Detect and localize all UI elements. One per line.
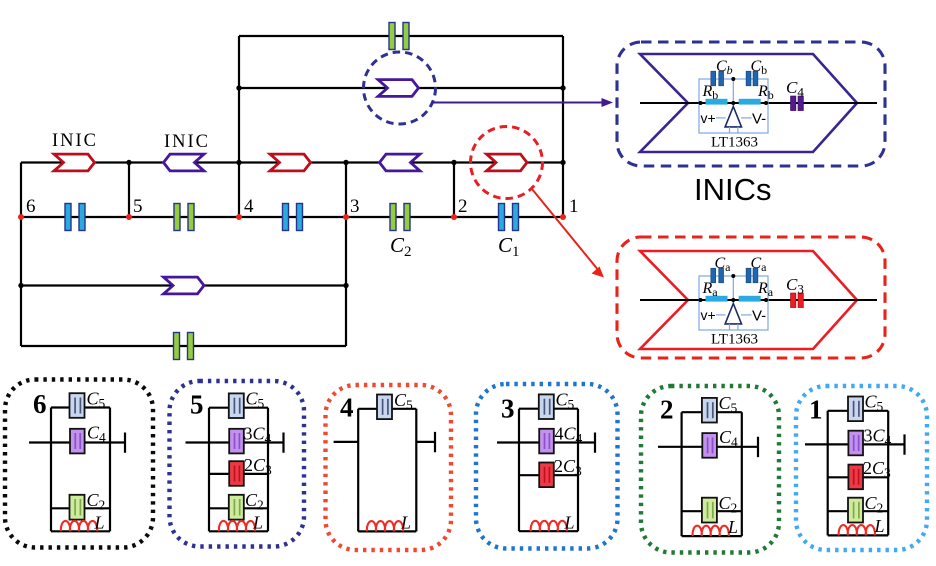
INIC detail box navy dashed border — [617, 42, 885, 166]
junction dot line mid U2 — [731, 298, 735, 302]
wire box1 bottom rung — [828, 534, 889, 536]
svg-text:C5: C5 — [87, 389, 106, 412]
wire box4 output line with T terminal — [416, 432, 435, 452]
junction dot (129,162.5) — [126, 160, 131, 165]
capacitor C2 box2 — [702, 498, 717, 523]
resistor Rb left — [706, 99, 728, 105]
wire lower INIC branch — [21, 284, 346, 286]
svg-text:C2: C2 — [390, 233, 412, 260]
junction dot op-amp top U2 — [731, 274, 735, 278]
junction dot line right — [764, 101, 768, 105]
svg-text:LT1363: LT1363 — [711, 332, 758, 348]
wire box5 C2 rung — [209, 507, 268, 509]
resonator box 5 dotted border — [170, 381, 305, 547]
svg-text:C2: C2 — [87, 490, 106, 513]
svg-text:LT1363: LT1363 — [711, 135, 758, 151]
wire box4 right vertical — [415, 409, 417, 532]
capacitor C2 box5 — [229, 495, 244, 520]
wire vertical at node 3 — [345, 163, 347, 347]
op-amp triangle U1 — [725, 107, 741, 127]
capacitor C6-5 blue — [65, 204, 85, 231]
wire box1 left vertical — [827, 411, 829, 536]
INIC purple on second loop circled — [378, 80, 419, 97]
wire box3 right vertical — [577, 409, 579, 532]
capacitor Cb left — [711, 71, 724, 85]
capacitor 3C4 box1 — [848, 431, 863, 456]
wire INIC ladder line — [21, 161, 563, 163]
resonator box 3 dotted border — [476, 384, 618, 549]
svg-text:C2: C2 — [865, 493, 884, 516]
junction dot (563,162.5) — [560, 160, 565, 165]
wire box2 input line with T terminal — [658, 437, 758, 457]
wire box1 C2 rung — [828, 510, 889, 512]
INIC big chevron red — [640, 251, 857, 349]
node 5 dot — [126, 214, 132, 220]
svg-text:V-: V- — [752, 308, 766, 325]
dashed red highlight circle — [471, 127, 543, 199]
capacitor 3C4 box5 — [229, 429, 244, 454]
wire box2 bottom rung — [682, 535, 742, 537]
op-amp pin stubs — [716, 118, 752, 133]
dashed navy highlight circle — [364, 52, 436, 124]
capacitor C4-3 blue — [283, 204, 303, 231]
wire box4 bottom rung — [358, 530, 416, 532]
svg-text:C5: C5 — [556, 390, 575, 413]
capacitor Cb right — [746, 71, 758, 85]
svg-text:L: L — [252, 513, 263, 533]
svg-text:L: L — [727, 517, 738, 537]
wire box5 top rung — [209, 407, 268, 409]
wire box6 right vertical — [109, 408, 111, 532]
wire box3 bottom rung — [519, 530, 578, 532]
svg-text:5: 5 — [133, 196, 143, 217]
wire box6 top rung — [51, 406, 110, 408]
wire box3 top rung — [519, 408, 578, 410]
annotation arrow red — [532, 189, 604, 278]
wire node line — [21, 216, 563, 218]
INIC detail box red dashed border — [617, 237, 885, 358]
resonator box 6 dotted border — [5, 380, 153, 548]
capacitor C1 blue — [499, 204, 519, 231]
svg-text:3: 3 — [501, 394, 515, 424]
capacitor C5 box6 — [70, 393, 85, 418]
junction dot (239,162.5) — [236, 160, 241, 165]
svg-text:INICs: INICs — [694, 172, 772, 207]
svg-text:2: 2 — [660, 395, 674, 425]
capacitor C2 green — [390, 204, 410, 231]
junction dot (239,88) — [236, 85, 241, 90]
wire box5 2C3 rung — [209, 473, 268, 475]
inductor L box6 — [61, 521, 97, 531]
svg-text:C1: C1 — [498, 233, 520, 260]
capacitor 2C3 box3 — [539, 463, 554, 488]
wire box4 top rung — [358, 408, 416, 410]
wire top loop horizontal — [239, 35, 563, 37]
junction dot op-amp top — [731, 77, 735, 81]
svg-text:v+: v+ — [701, 307, 716, 323]
op-amp circuit frame U2 — [699, 276, 768, 330]
inductor L box1 — [839, 525, 875, 535]
wire vertical at node 1 — [562, 36, 564, 217]
svg-text:C4: C4 — [87, 423, 106, 446]
wire second loop horizontal — [239, 87, 563, 89]
node 1 dot — [560, 214, 566, 220]
svg-text:L: L — [564, 513, 575, 533]
wire vertical at node 4 — [238, 36, 240, 217]
svg-text:INIC: INIC — [164, 132, 210, 152]
INIC red 6-5 — [54, 154, 95, 171]
capacitor C5 box3 — [539, 394, 554, 419]
svg-text:C4: C4 — [719, 427, 738, 450]
wire vertical at node 6 — [20, 163, 22, 347]
junction dot line mid — [731, 101, 735, 105]
wire box2 top rung — [682, 411, 742, 413]
wire box4 left vertical — [357, 409, 359, 532]
junction dot (346,162.5) — [343, 160, 348, 165]
junction dot line right U2 — [764, 298, 768, 302]
wire box5 left vertical — [208, 408, 210, 532]
capacitor C3 red — [791, 293, 804, 307]
resonator box 4 dotted border — [326, 385, 452, 550]
wire box2 right vertical — [741, 412, 743, 536]
svg-text:C2: C2 — [245, 490, 264, 513]
capacitor C4 purple — [791, 96, 804, 110]
inductor L box2 — [693, 526, 729, 536]
wire box6 left vertical — [50, 408, 52, 532]
INIC red 2-1 circled — [487, 154, 528, 171]
junction dot line left U2 — [699, 298, 703, 302]
capacitor C4 box6 — [70, 429, 85, 454]
svg-text:C5: C5 — [865, 392, 884, 415]
inductor L box5 — [219, 521, 255, 531]
svg-text:C5: C5 — [394, 390, 413, 413]
wire vertical at node 2 — [453, 163, 455, 218]
svg-text:INIC: INIC — [52, 131, 98, 151]
INIC purple 5-4 — [164, 154, 205, 171]
capacitor C4 box2 — [702, 433, 717, 458]
wire op-amp vertical center U2 — [732, 276, 734, 304]
svg-text:6: 6 — [33, 389, 47, 419]
op-amp triangle U2 — [725, 304, 741, 324]
svg-text:1: 1 — [569, 196, 579, 217]
node 3 dot — [343, 214, 349, 220]
wire through navy chevron — [640, 102, 877, 104]
capacitor C5 box5 — [229, 393, 244, 418]
svg-text:v+: v+ — [701, 110, 716, 126]
svg-text:C2: C2 — [719, 493, 738, 516]
svg-text:C5: C5 — [246, 389, 265, 412]
svg-text:C5: C5 — [719, 393, 738, 416]
wire box3 input line with T terminal — [497, 433, 595, 453]
capacitor Ca right — [746, 268, 758, 282]
inductor L box3 — [531, 521, 567, 531]
wire box2 left vertical — [680, 412, 682, 536]
capacitor C5 box2 — [702, 398, 717, 423]
svg-text:L: L — [874, 516, 885, 536]
wire box6 bottom rung — [51, 530, 110, 532]
node 4 dot — [236, 214, 242, 220]
capacitor C5 box1 — [848, 397, 863, 422]
capacitor C5 box4 — [377, 395, 392, 420]
wire box3 2C3 rung — [519, 474, 578, 476]
svg-text:4: 4 — [244, 196, 254, 217]
capacitor on top loop — [389, 23, 409, 50]
resistor Ra left — [706, 296, 728, 302]
op-amp pin stubs U2 — [716, 315, 752, 330]
INIC red 4-3 — [270, 154, 311, 171]
wire op-amp vertical center — [732, 79, 734, 107]
wire box6 input line with T terminal — [29, 433, 125, 453]
node 6 dot — [18, 214, 24, 220]
junction dot (21,285.5) — [18, 283, 23, 288]
wire through red chevron — [640, 299, 877, 301]
svg-text:2C3: 2C3 — [863, 458, 891, 481]
wire vertical at node 5 — [128, 163, 130, 218]
svg-text:V-: V- — [752, 111, 766, 128]
svg-text:5: 5 — [190, 390, 204, 420]
svg-text:3: 3 — [350, 196, 360, 217]
junction dot (346,285.5) — [343, 283, 348, 288]
resistor Ra right — [739, 296, 761, 302]
op-amp circuit frame U1 — [699, 79, 768, 133]
svg-text:1: 1 — [809, 395, 823, 425]
wire box1 top rung — [828, 410, 889, 412]
wire box6 C2 rung — [51, 507, 110, 509]
capacitor bottom branch green — [174, 333, 194, 360]
wire box5 right vertical — [267, 408, 269, 532]
annotation arrow purple — [431, 98, 613, 107]
wire bottom capacitor branch — [21, 345, 346, 347]
capacitor C2 box1 — [848, 498, 863, 523]
capacitor 2C3 box5 — [229, 461, 244, 486]
wire box4 input line left segment — [334, 441, 359, 443]
resonator box 2 dotted border — [641, 386, 779, 553]
capacitor 2C3 box1 — [848, 465, 863, 490]
capacitor Ca left — [711, 268, 724, 282]
wire box5 bottom rung — [209, 530, 268, 532]
node 2 dot — [451, 214, 457, 220]
inductor L box4 — [367, 521, 403, 531]
svg-text:2: 2 — [458, 196, 468, 217]
junction dot (454,162.5) — [451, 160, 456, 165]
INIC purple 3-2 — [380, 154, 421, 171]
resistor Rb right — [739, 99, 761, 105]
capacitor C2 box6 — [70, 495, 85, 520]
INIC purple on lower branch — [164, 277, 205, 294]
wire box3 left vertical — [518, 409, 520, 532]
svg-text:6: 6 — [26, 196, 36, 217]
wire box2 C2 rung — [682, 510, 742, 512]
capacitor C5-4 green — [174, 204, 194, 231]
capacitor 4C4 box3 — [539, 429, 554, 454]
svg-text:L: L — [94, 513, 105, 533]
junction dot line left — [699, 101, 703, 105]
wire box5 input line with T terminal — [186, 433, 284, 453]
svg-text:L: L — [400, 513, 411, 533]
resonator box 1 dotted border — [796, 386, 927, 550]
INIC big chevron navy — [640, 54, 857, 152]
wire box1 right vertical — [887, 411, 889, 536]
wire box1 input line with T terminal — [805, 434, 905, 454]
junction dot (563,88) — [560, 85, 565, 90]
svg-text:4: 4 — [340, 393, 354, 423]
wire box1 2C3 rung — [828, 476, 889, 478]
